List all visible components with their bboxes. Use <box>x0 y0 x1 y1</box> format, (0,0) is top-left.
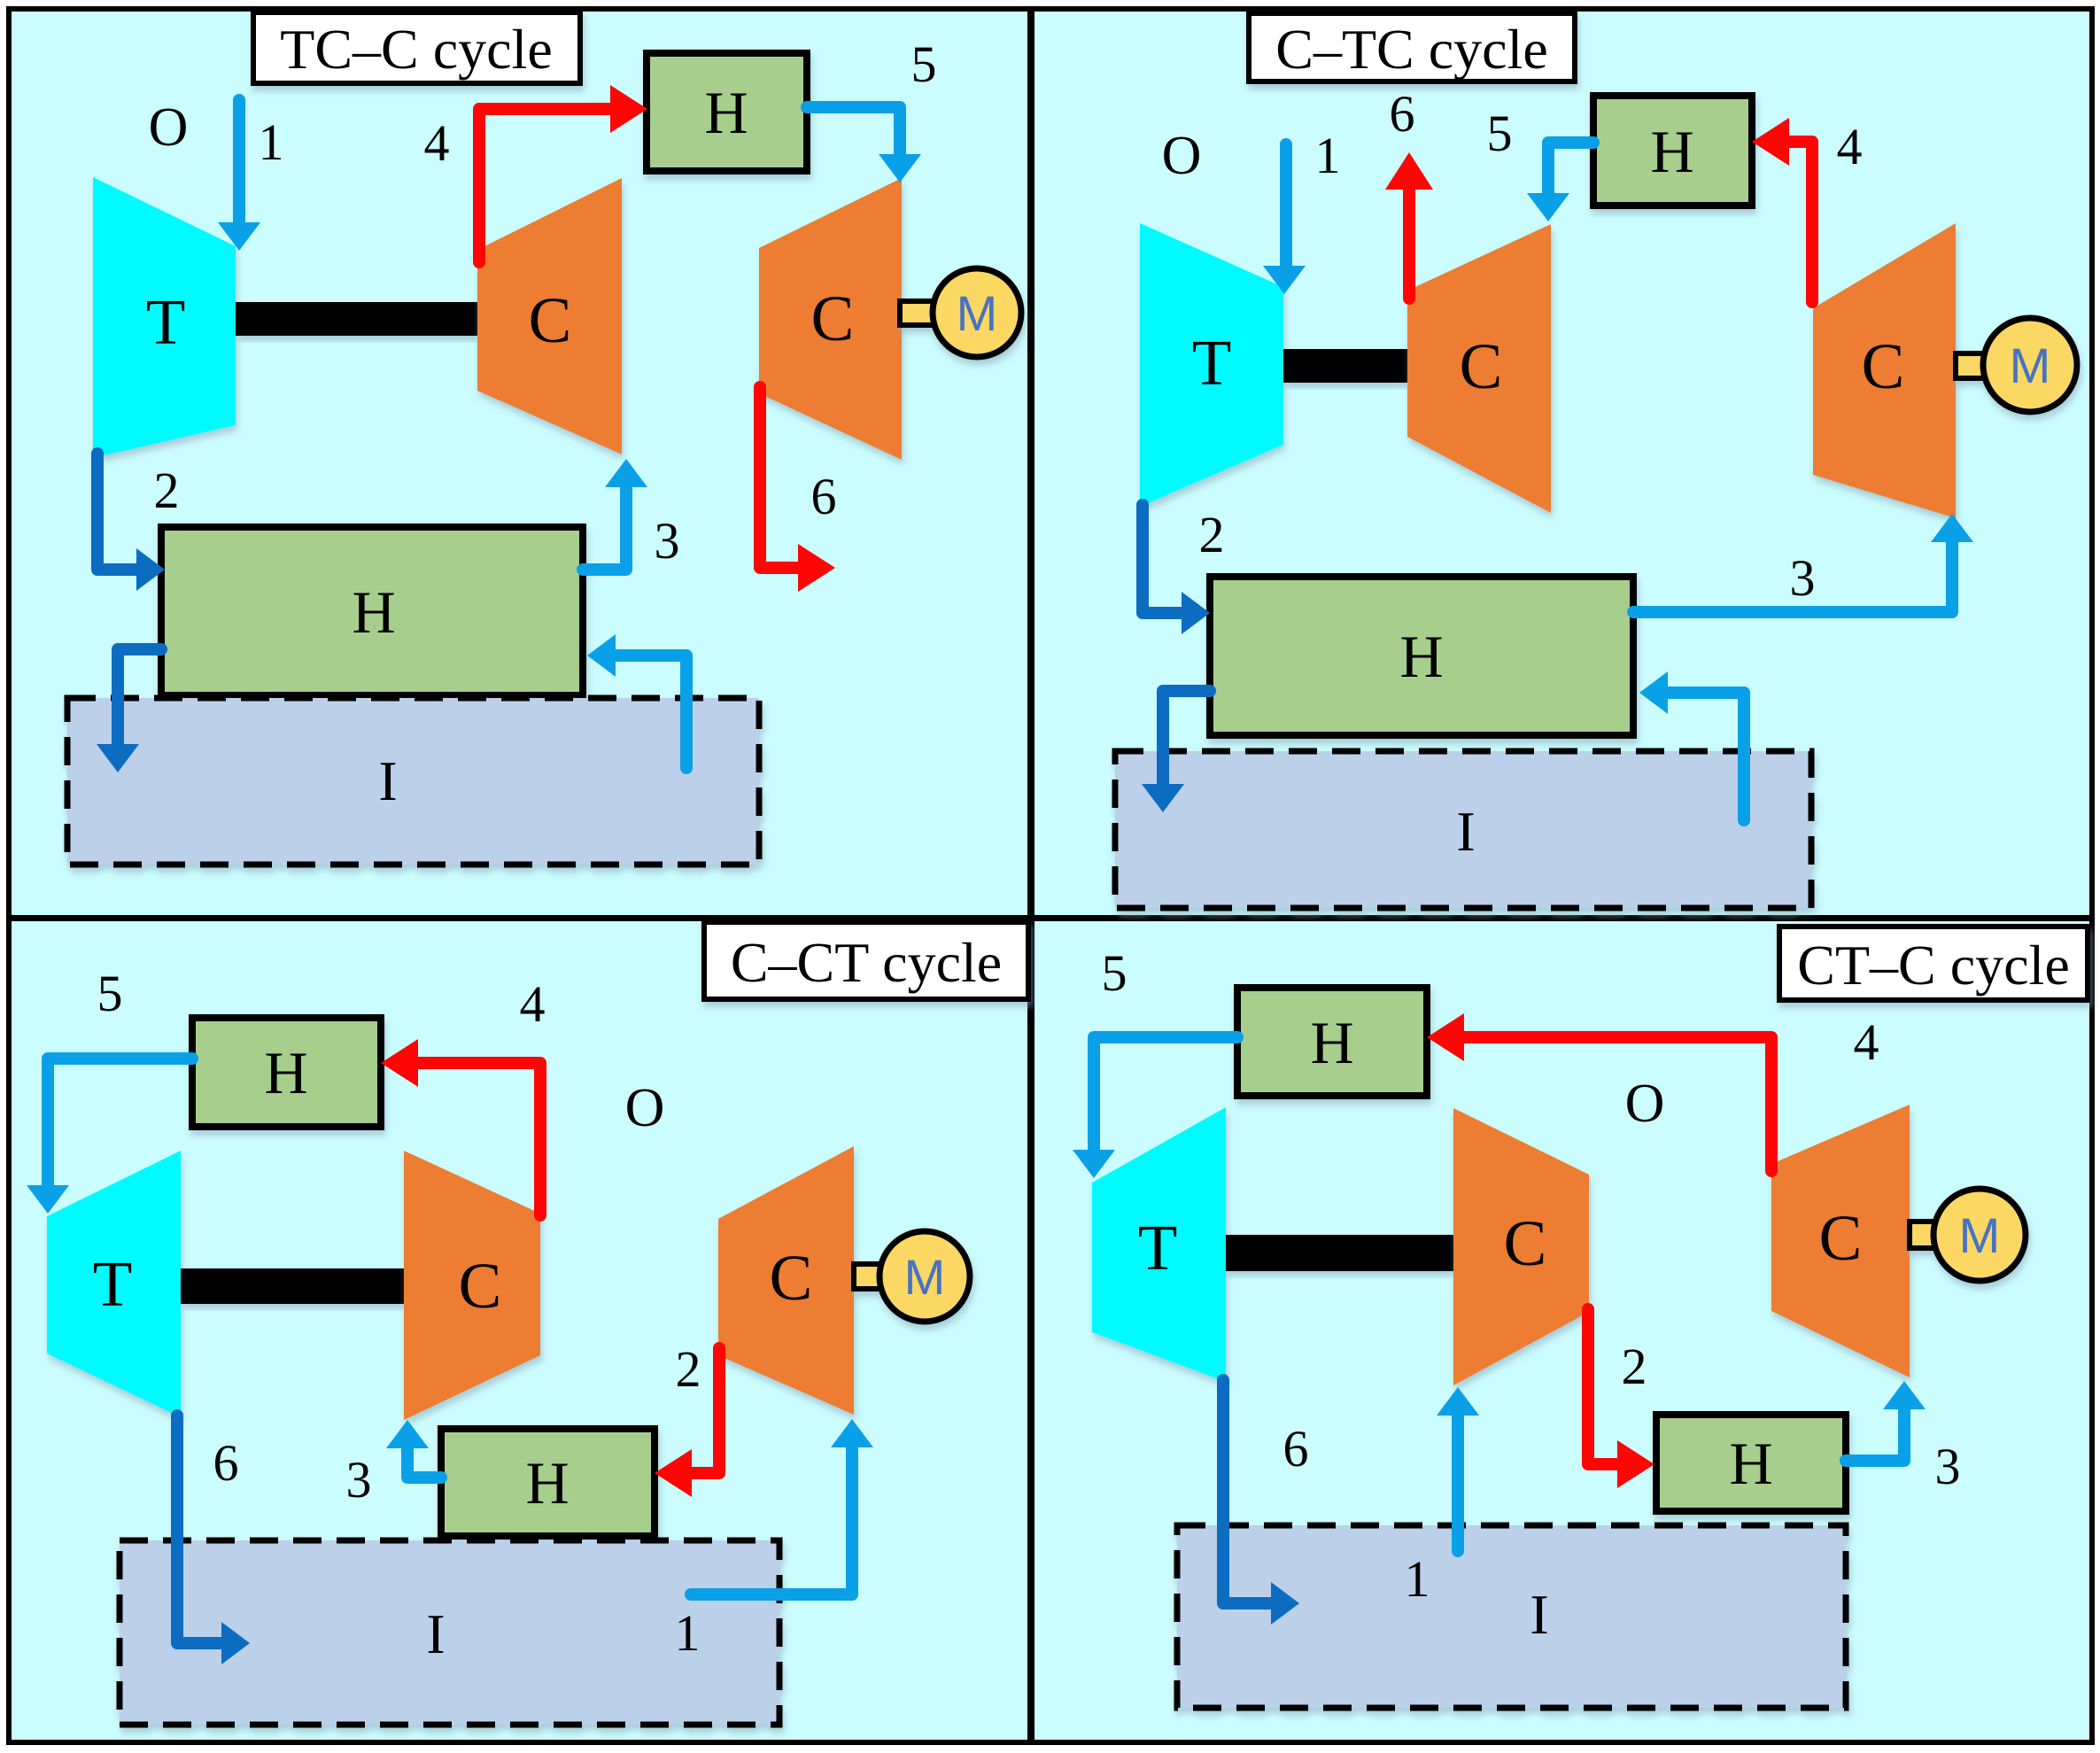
svg-text:H: H <box>352 578 395 646</box>
svg-text:6: 6 <box>213 1434 239 1492</box>
intercooler I (TC-C) <box>67 698 759 865</box>
svg-text:H: H <box>525 1449 569 1516</box>
turbine T (C-CT) <box>47 1151 181 1417</box>
stream 5 H top to C1 (C-TC) <box>1527 143 1593 221</box>
coolant from I to H (C-TC) <box>1639 671 1744 820</box>
svg-text:1: 1 <box>1315 127 1341 184</box>
turbine T (C-TC) <box>1140 223 1283 507</box>
intercooler I (C-TC) <box>1115 751 1811 908</box>
svg-text:1: 1 <box>259 113 284 171</box>
svg-text:4: 4 <box>520 975 546 1033</box>
heat exchanger H low (C-CT) <box>441 1429 655 1536</box>
svg-text:C: C <box>1504 1207 1547 1279</box>
svg-text:O: O <box>1625 1074 1665 1134</box>
compressor C2 (C-TC) <box>1813 223 1956 518</box>
svg-text:M: M <box>904 1249 946 1305</box>
svg-text:4: 4 <box>1854 1013 1879 1071</box>
stream 3 H to compressor C2 (C-TC) <box>1633 514 1973 612</box>
svg-text:5: 5 <box>97 965 123 1022</box>
svg-text:2: 2 <box>154 462 180 519</box>
heat exchanger H top (TC-C) <box>647 53 807 171</box>
stream 6 turbine to I (C-CT) <box>177 1416 250 1664</box>
stream 4 C1 to H top (red) (TC-C) <box>479 85 647 262</box>
heat exchanger H main (C-TC) <box>1210 577 1633 735</box>
compressor C1 (TC-C) <box>477 178 622 454</box>
compressor C2 (TC-C) <box>759 178 902 460</box>
svg-text:C: C <box>529 284 572 356</box>
svg-text:5: 5 <box>911 35 937 93</box>
heat exchanger H low (CT-C) <box>1656 1415 1846 1511</box>
svg-text:I: I <box>1456 800 1475 863</box>
stream 2 C2 to H low (red) (C-CT) <box>655 1348 719 1497</box>
turbine T (CT-C) <box>1092 1107 1226 1382</box>
svg-text:C: C <box>1819 1202 1863 1274</box>
svg-text:C–TC cycle: C–TC cycle <box>1275 18 1547 81</box>
svg-text:4: 4 <box>1837 118 1863 175</box>
coolant H to I (C-TC) <box>1142 691 1210 812</box>
svg-text:1: 1 <box>1405 1550 1430 1608</box>
stream 2 C1 to H low (red) (CT-C) <box>1588 1309 1654 1488</box>
svg-text:C: C <box>1460 330 1503 402</box>
motor M (TC-C) <box>900 268 1021 357</box>
stream 4 C2 to H top (red) (C-TC) <box>1752 118 1812 302</box>
svg-text:M: M <box>1959 1207 2001 1263</box>
svg-text:I: I <box>378 749 397 812</box>
svg-text:2: 2 <box>676 1340 701 1398</box>
compressor C2 (C-CT) <box>718 1146 854 1415</box>
svg-text:C: C <box>811 283 855 354</box>
svg-text:2: 2 <box>1199 506 1225 563</box>
svg-text:H: H <box>1310 1009 1353 1076</box>
svg-text:O: O <box>625 1078 665 1138</box>
svg-text:5: 5 <box>1487 105 1513 162</box>
svg-text:O: O <box>1162 126 1202 186</box>
shaft T-C (C-TC) <box>1283 349 1407 383</box>
shaft T-C (TC-C) <box>236 302 477 336</box>
heat exchanger H top (C-CT) <box>192 1018 381 1127</box>
svg-text:C: C <box>1862 330 1905 402</box>
svg-text:C: C <box>770 1242 813 1314</box>
svg-text:C–CT cycle: C–CT cycle <box>731 931 1002 994</box>
compressor C2 (CT-C) <box>1771 1105 1910 1377</box>
svg-text:T: T <box>1192 327 1232 399</box>
svg-text:T: T <box>146 286 186 358</box>
stream 6 turbine to I (CT-C) <box>1223 1380 1299 1625</box>
title box TC-C cycle <box>253 12 580 83</box>
coolant from I to H (TC-C) <box>587 634 686 768</box>
svg-text:6: 6 <box>811 468 837 525</box>
svg-text:M: M <box>957 285 998 341</box>
svg-text:I: I <box>1530 1583 1548 1646</box>
svg-text:C: C <box>459 1250 502 1322</box>
stream 4 C1 to H (red) (C-CT) <box>381 1039 540 1215</box>
stream 6 C2 exit (red) (TC-C) <box>760 387 835 592</box>
heat exchanger H top (C-TC) <box>1593 96 1752 206</box>
svg-text:H: H <box>1399 623 1443 690</box>
svg-text:5: 5 <box>1102 944 1127 1002</box>
svg-text:3: 3 <box>346 1451 372 1509</box>
intercooler I (CT-C) <box>1177 1525 1846 1708</box>
svg-text:TC–C cycle: TC–C cycle <box>280 18 552 81</box>
intercooler I (C-CT) <box>120 1540 779 1725</box>
svg-text:1: 1 <box>675 1604 701 1662</box>
svg-text:6: 6 <box>1390 85 1415 143</box>
vertical divider <box>1027 9 1035 1742</box>
heat exchanger H main (TC-C) <box>161 527 583 695</box>
title box C-TC cycle <box>1249 13 1575 81</box>
svg-text:O: O <box>149 97 189 158</box>
heat exchanger H top (CT-C) <box>1237 988 1427 1096</box>
compressor C1 (CT-C) <box>1453 1108 1589 1385</box>
compressor C1 (C-TC) <box>1407 224 1551 513</box>
horizontal divider <box>9 915 2092 921</box>
svg-text:T: T <box>93 1248 133 1320</box>
svg-text:H: H <box>264 1039 307 1106</box>
stream 3 H to compressor C1 (TC-C) <box>583 459 647 570</box>
stream 2 turbine exit to H (TC-C) <box>97 454 165 591</box>
turbine T (TC-C) <box>93 177 236 458</box>
svg-text:H: H <box>704 79 748 146</box>
motor M (CT-C) <box>1910 1189 2026 1281</box>
stream 3 H low to C1 (C-CT) <box>386 1420 441 1478</box>
svg-text:H: H <box>1729 1430 1772 1497</box>
svg-text:4: 4 <box>424 114 450 172</box>
stream 1 I to C2 (C-CT) <box>691 1419 873 1594</box>
shaft T-C (CT-C) <box>1226 1235 1453 1271</box>
coolant H to I (TC-C) <box>97 649 161 772</box>
title box C-CT cycle <box>704 922 1028 999</box>
svg-text:H: H <box>1650 118 1693 185</box>
shaft T-C (C-CT) <box>181 1268 404 1304</box>
svg-text:CT–C cycle: CT–C cycle <box>1797 934 2069 997</box>
motor M (C-CT) <box>854 1231 970 1322</box>
compressor C1 (C-CT) <box>404 1151 540 1420</box>
svg-text:3: 3 <box>1935 1438 1961 1495</box>
stream 3 H low to C2 (CT-C) <box>1846 1381 1926 1461</box>
title box CT-C cycle <box>1779 927 2088 1000</box>
svg-text:3: 3 <box>1790 549 1816 607</box>
svg-text:I: I <box>426 1602 445 1665</box>
stream 4 C2 to H (red) (CT-C) <box>1427 1013 1771 1171</box>
stream 1 I to C1 (CT-C) <box>1437 1387 1479 1551</box>
svg-text:6: 6 <box>1283 1420 1309 1478</box>
svg-text:2: 2 <box>1622 1338 1647 1395</box>
stream 5 H top to C2 (TC-C) <box>807 107 921 182</box>
stream 2 turbine exit to H (C-TC) <box>1143 505 1210 634</box>
stream 5 H to turbine (C-CT) <box>27 1059 192 1214</box>
motor M (C-TC) <box>1956 318 2077 412</box>
svg-text:T: T <box>1138 1212 1178 1284</box>
stream 6 C1 exit (red) (C-TC) <box>1385 152 1433 299</box>
stream 1 arrow into turbine (C-TC) <box>1263 144 1306 294</box>
svg-text:M: M <box>2010 337 2051 393</box>
stream 5 H to turbine (CT-C) <box>1073 1037 1237 1178</box>
svg-text:3: 3 <box>655 512 680 570</box>
stream 1 arrow into turbine (TC-C) <box>218 100 260 251</box>
